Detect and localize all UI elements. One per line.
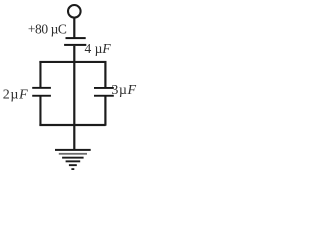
terminal circle	[68, 5, 81, 18]
capacitor C3 3uF top plate	[94, 87, 114, 89]
ground	[55, 149, 91, 170]
wire: left branch lower	[39, 96, 41, 126]
wire: bottom rail	[39, 124, 105, 126]
svg-text:3µF: 3µF	[111, 83, 136, 98]
capacitor C1 4uF bottom plate	[64, 44, 86, 46]
wire: right branch upper	[104, 61, 106, 87]
wire: left branch upper	[39, 61, 41, 87]
wire: top rail	[39, 61, 106, 63]
svg-text:+80 µC: +80 µC	[28, 21, 67, 36]
capacitor C2 2uF top plate	[32, 87, 51, 89]
capacitor C3 3uF bottom plate	[94, 95, 114, 97]
capacitor C2 2uF bottom plate	[32, 95, 51, 97]
svg-text:2µF: 2µF	[3, 88, 28, 103]
wire: terminal to C1 top plate	[73, 18, 75, 38]
svg-text:4 µF: 4 µF	[85, 41, 112, 56]
capacitor C1 4uF top plate	[66, 37, 86, 39]
wire: C1 bottom plate down through rails to ground	[73, 46, 75, 149]
wire: right branch lower	[104, 96, 106, 126]
